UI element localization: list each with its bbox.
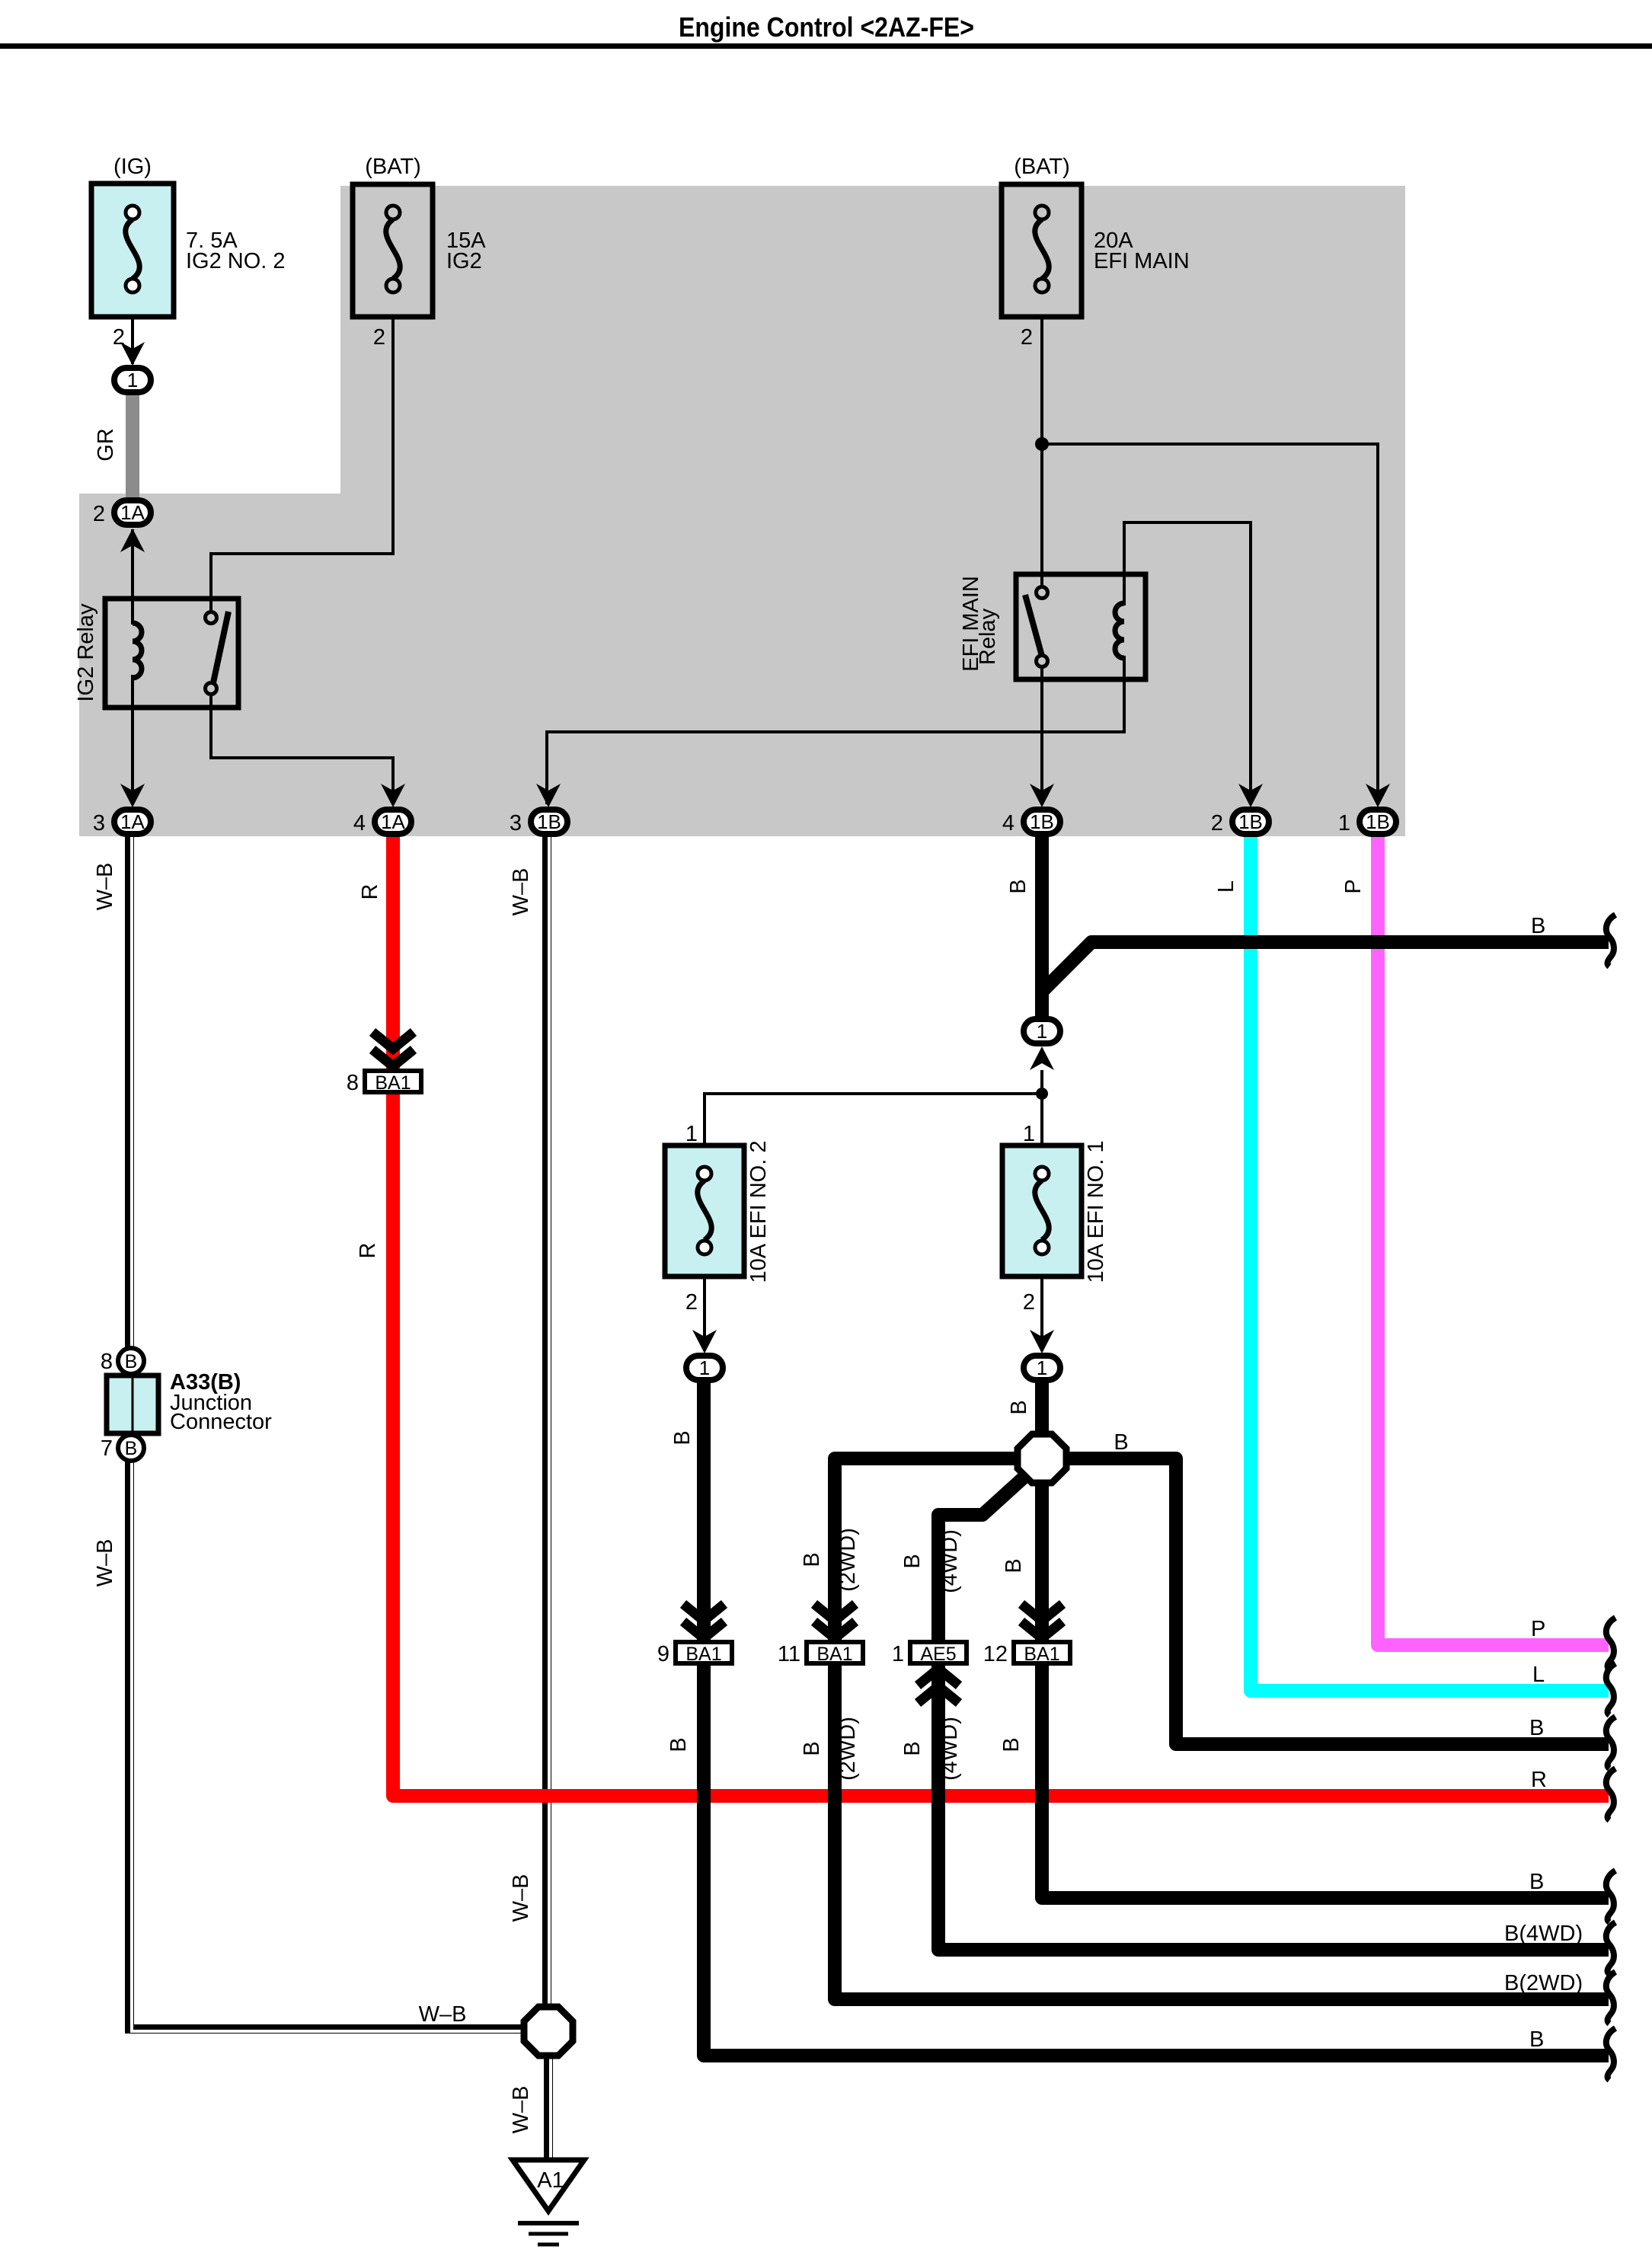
- wire: 15A IG2 fuse pin2 to IG2 relay switch: [211, 317, 393, 612]
- svg-text:2: 2: [93, 502, 105, 526]
- svg-text:IG2 NO. 2: IG2 NO. 2: [186, 249, 286, 273]
- svg-text:B: B: [1529, 1870, 1544, 1894]
- svg-text:Engine Control <2AZ-FE>: Engine Control <2AZ-FE>: [679, 11, 974, 43]
- svg-text:W–B: W–B: [509, 2086, 533, 2134]
- arrow into EFI NO.2 output connector: [692, 1330, 717, 1353]
- octagon splice (ground W-B): [524, 2007, 573, 2056]
- svg-text:1: 1: [1023, 1122, 1035, 1146]
- svg-text:GR: GR: [94, 428, 118, 462]
- wire: EFI NO.1 fuse pin2 to connector 1: [1040, 1257, 1043, 1351]
- arrow into EFI NO.1 output connector: [1030, 1330, 1054, 1353]
- svg-text:(4WD): (4WD): [938, 1717, 962, 1781]
- svg-text:BA1: BA1: [375, 1072, 411, 1094]
- svg-text:L: L: [1532, 1663, 1545, 1687]
- svg-text:1: 1: [1037, 1020, 1047, 1043]
- svg-text:B: B: [666, 1737, 691, 1752]
- relay EFI MAIN: [959, 574, 1146, 679]
- connector 3 1A: [93, 810, 151, 835]
- wire break squiggle B(4WD): [1606, 1922, 1615, 1974]
- svg-text:1A: 1A: [120, 810, 145, 833]
- wire: EFI NO.2 fuse pin2 to connector 1: [703, 1257, 706, 1351]
- wire: EFI relay coil top to 2-1B: [1124, 522, 1251, 804]
- arrow into 2-1B: [1238, 784, 1263, 807]
- svg-text:B: B: [1007, 1400, 1031, 1414]
- svg-text:8: 8: [347, 1071, 359, 1095]
- wire break squiggle B (octagon right): [1606, 1717, 1615, 1768]
- wire B: octagon bottom to 12 BA1, right to edge: [1042, 1485, 1609, 1898]
- svg-text:IG2 Relay: IG2 Relay: [74, 603, 98, 701]
- wire W-B: octagon to ground A1: [544, 2058, 553, 2161]
- junction dot above EFI fuses: [1036, 1088, 1048, 1100]
- grey harness region: [79, 186, 1405, 836]
- svg-text:2: 2: [1023, 1290, 1035, 1315]
- svg-text:BA1: BA1: [1024, 1644, 1059, 1665]
- svg-text:L: L: [1214, 880, 1238, 893]
- svg-text:W–B: W–B: [93, 863, 117, 911]
- wire: connector 2-1A to IG2 relay coil: [131, 529, 134, 625]
- svg-text:P: P: [1341, 879, 1366, 893]
- wire P: 1-1B down and right to edge: [1378, 836, 1609, 1645]
- connector 3 1B: [510, 810, 567, 835]
- 9 BA1 connector: [683, 1604, 724, 1638]
- wire: branch to EFI NO.2 fuse: [705, 1094, 1042, 1167]
- svg-text:10A EFI NO. 2: 10A EFI NO. 2: [746, 1141, 771, 1283]
- svg-text:(2WD): (2WD): [836, 1717, 860, 1781]
- svg-text:1: 1: [1338, 811, 1350, 835]
- svg-text:1B: 1B: [1238, 810, 1263, 833]
- wire B: EFI NO.1 connector to octagon splice: [1035, 1381, 1049, 1433]
- svg-text:9: 9: [657, 1642, 669, 1666]
- svg-text:1B: 1B: [537, 810, 561, 833]
- fuse 15A IG2: [353, 155, 486, 350]
- arrow up into connector 2-1A: [120, 529, 145, 552]
- svg-text:2: 2: [1021, 325, 1033, 350]
- svg-text:B(2WD): B(2WD): [1504, 1971, 1583, 1995]
- connector 2 1A: [93, 500, 151, 526]
- svg-text:B: B: [999, 1737, 1024, 1752]
- svg-text:AE5: AE5: [920, 1644, 956, 1665]
- svg-text:10A EFI NO. 1: 10A EFI NO. 1: [1084, 1141, 1108, 1283]
- wire W-B: 3-1B down to ground octagon: [542, 836, 551, 2005]
- wire: IG2 relay coil to 3-1A: [131, 675, 134, 804]
- svg-text:2: 2: [373, 325, 385, 350]
- svg-text:B(4WD): B(4WD): [1504, 1922, 1583, 1946]
- wire B: EFI NO.2 connector down, right to edge: [704, 1381, 1609, 2056]
- svg-text:3: 3: [510, 811, 522, 835]
- svg-text:(IG): (IG): [113, 155, 152, 179]
- wire break squiggle B (12 BA1): [1606, 1871, 1615, 1922]
- svg-text:1: 1: [699, 1356, 710, 1379]
- svg-text:3: 3: [93, 811, 105, 835]
- wire break squiggle L: [1606, 1663, 1615, 1715]
- connector 4 1B: [1002, 810, 1060, 835]
- wire break squiggle B(2WD): [1606, 1972, 1615, 2024]
- svg-text:12: 12: [983, 1642, 1008, 1666]
- 8 BA1 connector on R wire: [372, 1032, 414, 1066]
- connector 1 (EFI NO.1 output): [1024, 1356, 1060, 1380]
- fuse 10A EFI NO.2: [665, 1122, 771, 1315]
- svg-text:B: B: [1531, 914, 1545, 938]
- svg-text:B: B: [800, 1552, 824, 1567]
- wire B: branch diagonal right to edge: [1042, 942, 1609, 992]
- wire: EFI relay switch to 4-1B: [1040, 666, 1043, 804]
- svg-text:(BAT): (BAT): [1014, 155, 1070, 179]
- 1 AE5 connector: [892, 1642, 967, 1666]
- octagon splice (EFI power): [1018, 1434, 1066, 1483]
- fuse 20A EFI MAIN: [1002, 155, 1190, 350]
- svg-text:Relay: Relay: [976, 608, 1000, 665]
- svg-text:B: B: [1529, 1716, 1544, 1740]
- svg-text:Connector: Connector: [170, 1410, 272, 1434]
- svg-text:B: B: [1114, 1430, 1128, 1455]
- svg-text:B: B: [125, 1438, 138, 1459]
- svg-text:B: B: [1006, 879, 1031, 893]
- wire B: octagon right, down, right to edge: [1069, 1458, 1609, 1744]
- svg-text:W–B: W–B: [509, 868, 533, 916]
- wire break squiggle B bottom: [1606, 2028, 1615, 2080]
- wire: mid connector 1 to EFI NO.1 fuse: [1040, 1070, 1043, 1167]
- svg-text:1: 1: [1037, 1356, 1047, 1379]
- svg-text:(2WD): (2WD): [836, 1528, 860, 1592]
- svg-text:B: B: [900, 1741, 925, 1756]
- 12 BA1 connector: [1021, 1604, 1062, 1638]
- svg-text:B: B: [900, 1554, 925, 1568]
- svg-text:4: 4: [1002, 811, 1015, 835]
- arrow up into mid connector 1: [1030, 1046, 1054, 1070]
- svg-text:A1: A1: [537, 2168, 564, 2193]
- title rule: [0, 43, 1652, 49]
- fuse 7.5A IG2 NO.2: [91, 155, 286, 350]
- svg-text:(BAT): (BAT): [365, 155, 421, 179]
- svg-text:B: B: [125, 1351, 138, 1372]
- arrow into 3-1B: [536, 784, 561, 807]
- ground A1: [513, 2160, 584, 2244]
- connector 1 (IG fuse to GR): [114, 368, 151, 392]
- arrow into 4-1A: [381, 784, 405, 807]
- svg-text:R: R: [1531, 1768, 1547, 1792]
- svg-text:8: 8: [101, 1350, 113, 1374]
- svg-text:1B: 1B: [1030, 810, 1054, 833]
- wire: EFI MAIN fuse pin2 to EFI relay switch: [1040, 317, 1043, 587]
- svg-text:B: B: [1002, 1558, 1026, 1573]
- svg-text:IG2: IG2: [446, 249, 482, 273]
- svg-text:EFI MAIN: EFI MAIN: [1094, 249, 1190, 273]
- arrow into 4-1B: [1030, 784, 1054, 807]
- wire: IG fuse pin2 to connector 1: [131, 317, 134, 364]
- connector 1 (mid, EFI feed): [1024, 1019, 1060, 1043]
- arrow into 3-1A: [120, 784, 145, 807]
- svg-text:B: B: [800, 1741, 824, 1756]
- wire: IG2 relay switch to 4-1A: [211, 694, 393, 804]
- wire W-B: 3-1A down through A33(B) to ground octagon: [129, 836, 526, 2029]
- wire B(2WD): octagon left, down, right to edge: [835, 1458, 1609, 1999]
- svg-text:4: 4: [353, 811, 366, 835]
- svg-text:W–B: W–B: [509, 1874, 533, 1922]
- svg-text:(4WD): (4WD): [938, 1529, 962, 1593]
- wire R: 4-1A down and right to edge: [393, 836, 1609, 1796]
- svg-text:W–B: W–B: [93, 1539, 117, 1587]
- svg-text:W–B: W–B: [419, 2002, 467, 2027]
- svg-text:7: 7: [101, 1436, 113, 1461]
- svg-text:1B: 1B: [1366, 810, 1390, 833]
- junction dot on EFI MAIN feed: [1035, 437, 1049, 451]
- svg-text:1A: 1A: [381, 810, 405, 833]
- wire B: 4-1B down to connector 1: [1035, 836, 1049, 1018]
- A33(B) junction connector: [101, 1348, 272, 1461]
- svg-text:2: 2: [1211, 811, 1223, 835]
- connector 1 (EFI NO.2 output): [686, 1356, 723, 1380]
- fuse 10A EFI NO.1: [1002, 1122, 1108, 1315]
- svg-text:2: 2: [685, 1290, 698, 1315]
- svg-text:BA1: BA1: [816, 1644, 852, 1665]
- connector 2 1B: [1211, 810, 1269, 835]
- svg-text:R: R: [356, 1243, 380, 1259]
- wire break squiggle P: [1606, 1618, 1615, 1669]
- svg-text:1: 1: [685, 1122, 698, 1146]
- svg-text:BA1: BA1: [685, 1644, 721, 1665]
- wire: junction to 1-1B: [1042, 444, 1378, 804]
- arrow into 1-1B: [1366, 784, 1390, 807]
- svg-text:1A: 1A: [120, 501, 145, 524]
- svg-text:R: R: [358, 884, 382, 900]
- svg-text:B: B: [670, 1430, 695, 1445]
- arrow into connector 1 (IG fuse): [120, 342, 145, 366]
- wire: EFI relay coil bottom to 3-1B: [547, 656, 1124, 804]
- relay IG2: [74, 599, 238, 708]
- wire L: 2-1B down and right to edge: [1251, 836, 1609, 1691]
- wire GR: connector 1 to 2-1A: [126, 395, 139, 499]
- svg-text:1: 1: [127, 369, 138, 391]
- wire B(4WD): octagon diagonal to AE5, right to edge: [938, 1478, 1609, 1950]
- svg-text:11: 11: [778, 1642, 800, 1666]
- svg-text:B: B: [1529, 2027, 1544, 2052]
- wire break squiggle B top: [1606, 915, 1615, 966]
- connector 4 1A: [353, 810, 411, 835]
- connector 1 1B: [1338, 810, 1396, 835]
- 11 BA1 connector: [814, 1604, 855, 1638]
- svg-text:P: P: [1531, 1617, 1545, 1641]
- svg-text:1: 1: [892, 1642, 904, 1666]
- wire break squiggle R: [1606, 1768, 1615, 1820]
